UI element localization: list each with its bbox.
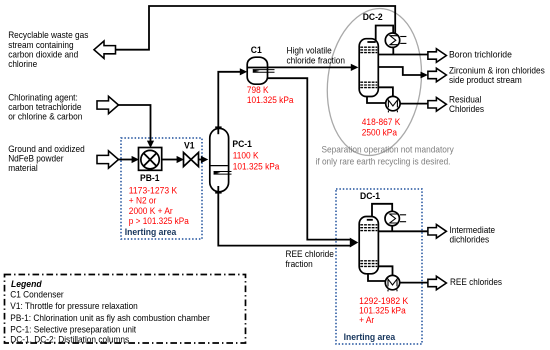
label intermediate dichlorides (450, 225, 496, 246)
legend box dash-dot border (5, 275, 246, 344)
arrowhead into DC-2 (351, 64, 359, 71)
hollow arrow NdFeB feed (right pointing) (97, 151, 119, 168)
label chlorinating agent (8, 93, 82, 123)
svg-text:C1: C1 (251, 45, 263, 56)
wire PB-1 to V1 (162, 159, 178, 161)
svg-text:p > 101.325 kPa: p > 101.325 kPa (129, 216, 190, 227)
wire DC-1 vapor return (378, 266, 392, 275)
DC-2 reboiler (386, 96, 400, 112)
svg-text:chlorine: chlorine (8, 59, 37, 70)
wire recycle gas from DC-2 condenser to waste-gas arrow (115, 6, 395, 50)
value C1 conditions (247, 85, 294, 106)
inerting area dotted box PB-1 (121, 138, 202, 239)
valve V1 (184, 153, 199, 167)
arrowhead into PC-1 (201, 156, 208, 163)
svg-text:C1 Condenser: C1 Condenser (10, 289, 63, 300)
svg-text:Inerting area: Inerting area (125, 227, 177, 238)
wire DC-2 condenser down to distillate header (392, 47, 394, 54)
svg-text:V1: V1 (184, 141, 195, 152)
hollow arrow recyclable waste gas (left pointing) (94, 41, 116, 58)
grey scope ellipse around DC-2 (319, 3, 429, 161)
svg-text:PC-1: PC-1 (232, 139, 252, 150)
svg-text:material: material (8, 163, 38, 174)
arrowhead into Zr arrow (421, 72, 429, 79)
svg-text:Separation operation not manda: Separation operation not mandatory (322, 145, 455, 156)
svg-text:+ N2 or: + N2 or (129, 196, 157, 207)
wire DC-2 column top to condenser (376, 26, 394, 43)
wire NdFeB feed to PB-1 left (118, 159, 133, 161)
inerting area dotted box DC-1 (336, 189, 422, 344)
wire DC-2 side product (378, 67, 421, 75)
svg-text:Chlorides: Chlorides (449, 104, 484, 115)
svg-text:DC-2: DC-2 (363, 12, 383, 23)
svg-text:DC-1, DC-2: Distillation colum: DC-1, DC-2: Distillation columns (10, 335, 129, 346)
svg-text:dichlorides: dichlorides (450, 235, 490, 246)
label high volatile chloride fraction (287, 46, 346, 67)
value DC-2 conditions (362, 117, 401, 138)
svg-text:PB-1: PB-1 (140, 173, 160, 184)
wire PC-1 top to C1 feed (218, 72, 240, 129)
hollow arrow intermediate dichlorides (428, 225, 447, 239)
note separation optional (316, 145, 455, 168)
svg-text:fraction: fraction (286, 259, 313, 270)
label recyclable waste gas stream (8, 30, 88, 70)
svg-text:2500 kPa: 2500 kPa (362, 128, 398, 139)
value PB-1 conditions (129, 186, 190, 228)
value PC-1 conditions (233, 150, 280, 172)
hollow arrow residual chlorides (428, 98, 447, 112)
hollow arrow chlorinating agent (right pointing) (97, 96, 119, 113)
svg-text:DC-1: DC-1 (360, 191, 381, 202)
wire DC-2 vapor return to reboiler top (378, 87, 393, 96)
svg-text:PB-1: Chlorination unit as fly: PB-1: Chlorination unit as fly ash combu… (10, 313, 210, 324)
label NdFeB feed (8, 144, 85, 174)
label REE chloride fraction (286, 249, 334, 270)
svg-text:if only rare earth recycling i: if only rare earth recycling is desired. (316, 157, 451, 168)
svg-text:REE chlorides: REE chlorides (450, 277, 502, 288)
hollow arrow zirconium side product (428, 68, 447, 82)
svg-text:Inerting area: Inerting area (344, 332, 396, 343)
svg-text:side product stream: side product stream (449, 75, 522, 86)
DC-2 trays bottom (360, 82, 377, 87)
wire REE chloride fraction PC-1 bottom to DC-1 (218, 191, 350, 246)
column DC-1 (359, 217, 378, 274)
hollow arrow boron trichloride (428, 49, 447, 63)
DC-1 trays bottom (360, 261, 377, 267)
chlorination unit PB-1 (139, 148, 162, 171)
arrowhead into PB-1 top (147, 141, 154, 148)
condenser C1 (247, 57, 274, 84)
svg-text:or chlorine & carbon: or chlorine & carbon (8, 112, 82, 123)
DC-2 trays top (360, 47, 377, 52)
arrowhead into V1 (177, 156, 184, 163)
wire DC-2 bottom stub to reboiler (367, 95, 386, 103)
arrowhead into C1 (240, 68, 247, 75)
DC-1 condenser (385, 211, 406, 225)
svg-text:V1: Throttle for pressure rela: V1: Throttle for pressure relaxation (10, 301, 138, 312)
svg-text:Boron trichloride: Boron trichloride (449, 50, 512, 61)
wire DC-1 column top to condenser (372, 204, 392, 220)
svg-text:101.325 kPa: 101.325 kPa (233, 161, 280, 172)
wire residual chlorides (400, 103, 428, 105)
wire REE chlorides product (400, 282, 429, 284)
wire DC-1 condenser down (391, 226, 393, 232)
svg-text:+ Ar: + Ar (359, 315, 374, 326)
wire chlorinating agent to PB-1 top (118, 105, 151, 142)
wire DC-1 bottom stub to reboiler (368, 274, 386, 282)
label residual chlorides (449, 95, 484, 116)
column DC-2 (359, 39, 378, 97)
wire intermediate dichlorides product (378, 230, 428, 232)
wire C1 bottom outlet to DC-1 feed (265, 78, 350, 239)
wire V1 to PC-1 (199, 159, 202, 161)
DC-1 reboiler (385, 275, 399, 291)
column PC-1 (210, 127, 232, 192)
DC-2 condenser (385, 33, 406, 47)
DC-1 trays top (360, 225, 377, 231)
arrowhead into DC-1 feed (350, 238, 359, 248)
value DC-1 conditions (359, 296, 409, 326)
hollow arrow REE chlorides (428, 276, 447, 290)
label zirconium side product (449, 65, 545, 86)
wire high volatile feed C1 to DC-2 (247, 66, 352, 68)
arrowhead into PB-1 left (132, 156, 139, 163)
svg-text:101.325 kPa: 101.325 kPa (247, 95, 294, 106)
svg-text:1100 K: 1100 K (233, 150, 259, 161)
wire boron trichloride line (reflux + product) (378, 54, 428, 56)
svg-text:chloride fraction: chloride fraction (287, 56, 346, 67)
